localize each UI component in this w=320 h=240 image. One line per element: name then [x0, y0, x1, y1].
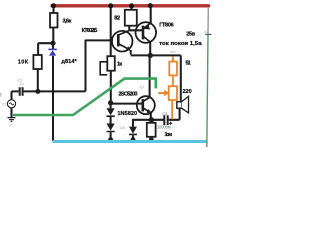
svg-text:25в: 25в	[186, 32, 195, 38]
svg-text:д814*: д814*	[61, 59, 77, 65]
svg-text:D6: D6	[120, 126, 125, 130]
svg-text:1ом: 1ом	[164, 132, 172, 138]
svg-text:v: v	[10, 123, 12, 127]
svg-text:С3: С3	[162, 112, 167, 116]
svg-text:ГТ806: ГТ806	[159, 23, 174, 29]
svg-text:220: 220	[183, 89, 192, 95]
svg-text:V1: V1	[2, 102, 6, 106]
svg-text:10К: 10К	[18, 60, 29, 66]
svg-text:V2: V2	[204, 30, 208, 34]
svg-text:КТ602Б: КТ602Б	[82, 28, 98, 34]
svg-text:ток покоя 1,5а: ток покоя 1,5а	[159, 41, 202, 47]
svg-text:1u: 1u	[20, 82, 24, 86]
svg-text:1N5820: 1N5820	[117, 111, 137, 117]
svg-text:3,6к: 3,6к	[63, 18, 72, 24]
svg-text:10000м: 10000м	[157, 125, 171, 130]
svg-text:Q1: Q1	[140, 85, 145, 89]
svg-text:пот: пот	[170, 50, 176, 54]
svg-text:2SC5200: 2SC5200	[118, 91, 137, 97]
svg-text:51: 51	[186, 61, 191, 67]
svg-text:82: 82	[114, 16, 120, 22]
svg-text:1к: 1к	[117, 62, 122, 68]
